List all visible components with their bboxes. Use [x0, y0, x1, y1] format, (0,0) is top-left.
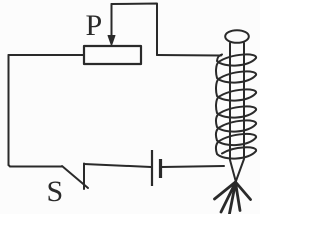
wire left vertical — [8, 55, 10, 165]
wire top-left horizontal to rheostat left terminal — [9, 54, 84, 56]
wiper arrow of rheostat P — [108, 4, 115, 46]
switch S right contact stub — [83, 164, 85, 190]
svg-text:S: S — [47, 175, 64, 208]
coil winding (7-turn spiral) — [216, 54, 256, 158]
wire from right branch to coil top — [157, 54, 221, 57]
battery negative plate (short thick) — [159, 159, 162, 178]
switch S blade — [62, 166, 88, 188]
wire from wiper up, right, and down to right branch — [112, 4, 158, 56]
wire from switch to battery — [84, 164, 151, 167]
iron filings tassel at nail tip — [215, 182, 251, 214]
wire bottom-left to switch — [9, 165, 63, 167]
battery positive plate (long) — [151, 150, 153, 186]
nail head (ellipse) — [225, 30, 249, 43]
nail body left side and taper — [230, 43, 236, 182]
svg-text:P: P — [86, 9, 103, 42]
resistor (rheostat) P body — [84, 46, 141, 64]
nail body right side and taper — [236, 43, 244, 182]
wire from battery to coil bottom — [162, 166, 224, 167]
